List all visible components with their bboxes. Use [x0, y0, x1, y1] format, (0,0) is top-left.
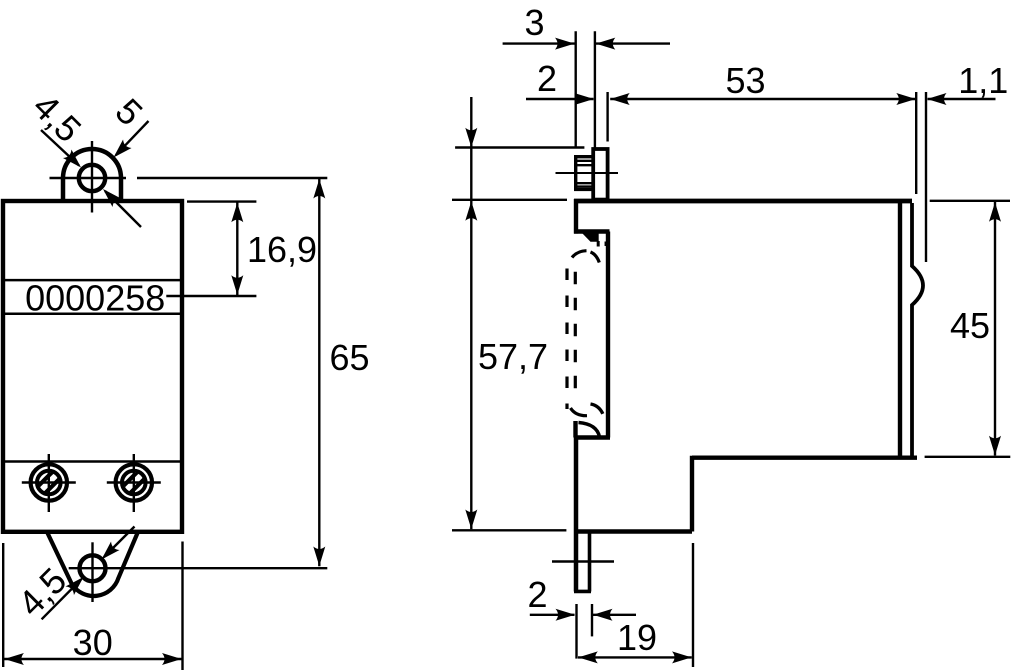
dimension 65 line: [318, 179, 320, 567]
terminal screw left crosshair: [22, 481, 76, 483]
dimension 16,9 line: [236, 203, 238, 296]
svg-text:57,7: 57,7: [478, 336, 548, 377]
dimension 30 left extension: [2, 543, 4, 667]
dimension 2 top lead: [526, 98, 594, 100]
din hook bottom: [574, 435, 610, 439]
din rail step: [574, 229, 610, 233]
leader 4,5 top: [41, 130, 79, 166]
label band lower line: [3, 312, 182, 315]
terminal screw right outer ring: [116, 464, 152, 500]
extension 19 right: [692, 543, 694, 667]
side body upper-left edge: [574, 199, 578, 234]
side right edge: [898, 201, 902, 458]
side lower-left wall: [574, 438, 579, 592]
bottom pin crosshair: [552, 560, 614, 562]
label band upper line: [3, 279, 182, 282]
din hook inner arc: [579, 423, 600, 438]
dimension 53 line: [610, 98, 916, 100]
dimension 16,9 extension line: [187, 200, 256, 202]
dimension 45 line: [994, 202, 996, 456]
dimension 30 right extension: [181, 542, 183, 671]
dimension 30 line: [4, 658, 182, 660]
terminal screw right crosshair: [107, 481, 161, 483]
left extension of body top: [452, 199, 567, 201]
dimension 3 right lead: [596, 42, 670, 44]
screw ribbed body: [576, 157, 595, 190]
terminal screw left hatch: [31, 457, 67, 507]
dimension 45 bottom extension: [925, 456, 1011, 458]
dimension 19 line: [578, 656, 692, 658]
front view body outline: [3, 201, 182, 532]
57,7 bottom extension: [452, 529, 566, 531]
svg-text:3: 3: [524, 2, 544, 43]
svg-text:19: 19: [617, 617, 657, 658]
extension pin left: [575, 604, 577, 659]
chain dimension vertical at left: [470, 97, 472, 529]
bottom pin cap: [574, 590, 591, 594]
dimension 3 left lead: [503, 42, 575, 44]
svg-text:2: 2: [537, 58, 557, 99]
top lug hole: [79, 165, 105, 191]
bottom pin right edge: [588, 533, 592, 592]
hidden din clip right line: [574, 272, 577, 401]
side bottom-right edge: [692, 456, 917, 460]
side body top edge: [574, 199, 912, 203]
screw centerline: [556, 172, 619, 174]
screw top extension line: [455, 146, 584, 148]
side bottom step vertical: [690, 456, 694, 532]
svg-text:1,1: 1,1: [958, 60, 1008, 101]
top lug crosshair horizontal: [50, 177, 127, 179]
terminal screw left inner ring: [37, 471, 61, 495]
bottom lug hole: [80, 555, 106, 581]
screw ribs: [577, 160, 594, 162]
leader 5 top: [116, 121, 149, 155]
terminal screw right inner ring: [122, 471, 146, 495]
extension 1,1 left: [915, 92, 917, 194]
svg-text:2: 2: [527, 574, 547, 615]
hidden din clip left line: [565, 269, 568, 410]
bottom reference line to 65 dimension: [69, 567, 328, 569]
terminal zone line: [3, 460, 182, 463]
serial number leader: [166, 295, 256, 297]
svg-text:45: 45: [950, 305, 990, 346]
hidden din clip bottom arc: [571, 408, 588, 416]
din hook left edge: [573, 421, 577, 438]
din clip visible end arc: [591, 404, 603, 414]
side top edge redraw over screw head: [574, 199, 912, 203]
svg-text:0000258: 0000258: [25, 278, 165, 319]
din channel wall: [606, 232, 610, 438]
reference line hole center to 65 dimension: [137, 177, 327, 179]
bottom mounting lug: [48, 533, 138, 596]
extension screw right: [606, 92, 608, 142]
leader 4,5 bottom: [104, 527, 135, 558]
dimension 1,1 lead: [928, 98, 996, 100]
din rail tooth: [581, 232, 599, 242]
top lug crosshair vertical: [91, 141, 93, 213]
side inner right line with bump: [912, 203, 923, 457]
top mounting lug: [63, 149, 121, 202]
dimension 45 top extension: [930, 200, 1010, 202]
svg-text:16,9: 16,9: [247, 229, 317, 270]
extension screw mid: [594, 31, 596, 148]
svg-text:53: 53: [725, 60, 765, 101]
terminal screw right hatch: [116, 457, 152, 507]
extension screw left: [575, 31, 577, 147]
side bottom-left edge: [576, 529, 692, 533]
screw head: [593, 149, 607, 200]
terminal screw left outer ring: [31, 464, 67, 500]
svg-text:65: 65: [330, 337, 370, 378]
bottom lug crosshair vertical: [91, 542, 93, 602]
svg-text:30: 30: [73, 622, 113, 663]
dimension 2 bottom leads: [530, 614, 575, 616]
extension 1,1 right: [925, 92, 927, 262]
extension pin right: [591, 604, 593, 636]
hidden din clip top arc: [572, 251, 587, 258]
